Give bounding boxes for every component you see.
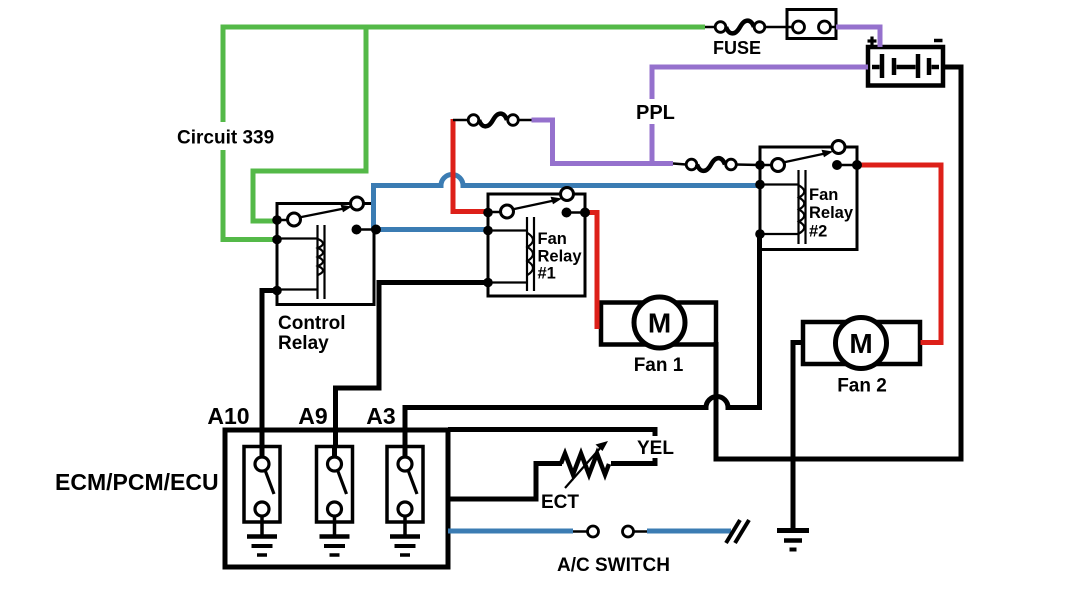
fuse holder terminals (circles in box) [787, 21, 836, 33]
control relay junction dots [272, 215, 381, 295]
fan relay #1 switch [488, 188, 585, 219]
svg-text:FUSE: FUSE [713, 38, 761, 58]
fan relay #2 box [760, 147, 857, 250]
wire: purple PPL from battery + down to fuse 2 [532, 67, 869, 164]
ECM/PCM/ECU box [225, 430, 448, 567]
control relay switch [277, 197, 376, 230]
label Fan 1 [634, 355, 684, 376]
label Circuit 339 [170, 122, 276, 150]
battery + terminal label [868, 37, 877, 46]
wire break symbol // [726, 520, 749, 543]
wire: green Circuit 339 main run (top + left drop to relay pin) [223, 27, 705, 240]
wire: green Circuit 339 branch to upper relay pin [253, 27, 366, 221]
svg-text:A/C SWITCH: A/C SWITCH [557, 555, 670, 576]
svg-text:M: M [849, 328, 872, 359]
wire: black control relay to A10 [262, 291, 277, 461]
svg-text:Relay: Relay [809, 204, 854, 222]
svg-text:Control: Control [278, 313, 346, 334]
svg-text:Fan: Fan [538, 230, 567, 248]
ground symbol (chassis, right) [777, 531, 809, 550]
label A10 [207, 403, 249, 429]
svg-text:Circuit 339: Circuit 339 [177, 128, 274, 149]
label YEL [633, 436, 679, 459]
svg-text:ECT: ECT [541, 492, 579, 513]
battery - terminal label [934, 39, 943, 43]
fuse F1 (top, after Circuit 339) [705, 21, 787, 34]
motor M circle Fan 1 [634, 297, 685, 348]
ground under A3 [390, 537, 420, 556]
svg-text:ECM/PCM/ECU: ECM/PCM/ECU [55, 469, 219, 495]
label A9 [298, 403, 327, 429]
wire: purple from fuse holder to battery + [836, 27, 880, 47]
fan relay #2 switch [760, 141, 857, 172]
svg-text:A3: A3 [366, 403, 395, 429]
svg-text:A9: A9 [298, 403, 327, 429]
label A3 [366, 403, 395, 429]
fan relay #1 junction dots [483, 208, 590, 288]
fan relay #1 box [488, 194, 585, 296]
wire: blue upper (hops over red) to Fan Relay #2 [374, 175, 759, 230]
wire: blue A/C switch right segment [647, 529, 731, 534]
svg-text:Fan: Fan [809, 186, 838, 204]
motor M circle Fan 2 [836, 318, 887, 369]
wire: red from Fan Relay #1 down to Fan 1 motor [585, 213, 597, 330]
fan relay #2 junction dots [755, 160, 862, 239]
svg-text:PPL: PPL [636, 102, 675, 124]
A/C switch contacts [573, 526, 647, 537]
label ECM/PCM/ECU [55, 469, 219, 495]
label PPL [632, 99, 676, 124]
svg-text:Fan 2: Fan 2 [837, 376, 887, 397]
svg-text:#2: #2 [809, 223, 827, 241]
wire: black Fan 2 to ground [793, 343, 803, 531]
label Control Relay [278, 313, 346, 354]
wire: black Fan Relay #1 to A9 [336, 283, 487, 461]
fuse holder box [787, 10, 836, 39]
wire: red from Fan Relay #2 to Fan 2 motor [857, 165, 941, 343]
svg-text:Fan 1: Fan 1 [634, 355, 684, 376]
motor Fan 2 box [803, 322, 920, 364]
ground under A9 [320, 537, 350, 556]
fan relay #2 coil [761, 170, 806, 244]
svg-text:M: M [648, 308, 671, 339]
wire: red from fuse 2 down to Fan Relay #1 [453, 119, 486, 212]
svg-text:A10: A10 [207, 403, 249, 429]
ECM switch A9 [317, 446, 353, 535]
battery box [868, 47, 943, 86]
motor Fan 1 box [601, 303, 716, 345]
label Fan Relay #1 [538, 230, 583, 283]
wire: black battery negative down and across to Fan 1 [716, 67, 961, 459]
ECM switch A10 [244, 446, 280, 535]
svg-text:Relay: Relay [278, 333, 329, 354]
fan relay #1 coil [489, 217, 534, 291]
ECT variable resistor zigzag [561, 454, 609, 475]
wire: blue A/C switch left segment [448, 529, 573, 534]
label FUSE [713, 38, 761, 58]
fuse F2 (PPL to red) [453, 114, 532, 127]
label Fan 2 [837, 376, 887, 397]
wire: black YEL return from resistor to ECM top corner [448, 430, 655, 464]
fuse F3 (PPL to Fan Relay #2) [673, 158, 760, 171]
ground under A10 [247, 537, 277, 556]
svg-text:#1: #1 [538, 265, 556, 283]
control relay box [277, 204, 374, 305]
label A/C SWITCH [557, 555, 670, 576]
ECT arrow (variable) [565, 441, 608, 488]
wire: black ECM to ECT resistor left lead [446, 464, 562, 500]
wire: blue lower, control relay to Fan Relay #1 [376, 227, 486, 232]
svg-text:Relay: Relay [538, 248, 583, 266]
ECM switch A3 [387, 446, 423, 535]
label ECT [541, 492, 579, 513]
control relay coil [278, 225, 325, 299]
battery cells [872, 54, 939, 78]
svg-text:YEL: YEL [637, 438, 674, 459]
wire: black Fan Relay #2 to A3 (hops over Fan 1 wire) [405, 234, 760, 460]
label Fan Relay #2 [809, 186, 854, 241]
